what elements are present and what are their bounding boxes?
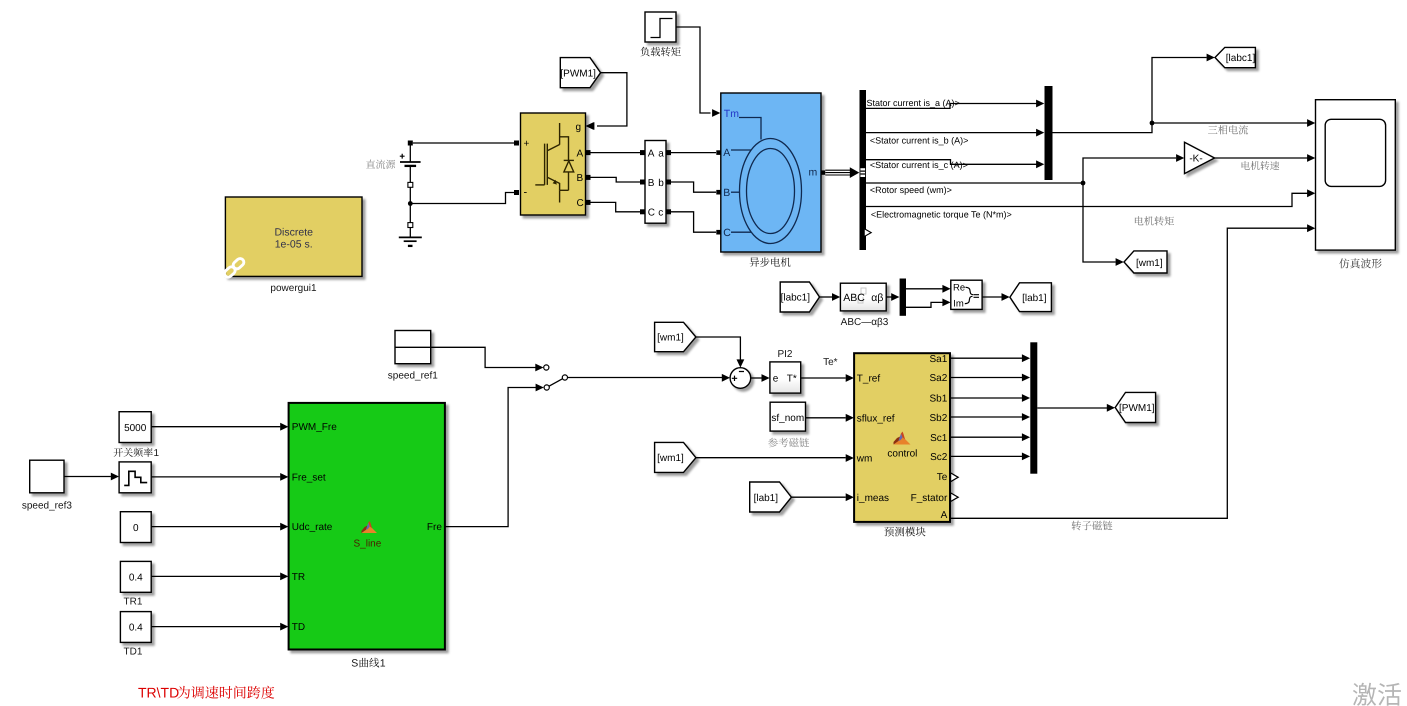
Goto block [lab1] [1010, 283, 1052, 312]
svg-text:F_stator: F_stator [911, 493, 948, 504]
wire: wm -> [wm1] goto [1083, 183, 1116, 262]
IGBT inverter block (universal bridge) [521, 113, 586, 215]
wire: electromagnetic torque Te -> scope [866, 193, 1308, 206]
watermark 激活 [1353, 683, 1401, 706]
From block [wm1] (top) [655, 322, 696, 351]
wire: inverter C -> measurement Cc [591, 202, 641, 211]
input port block speed_ref3 [30, 460, 64, 493]
svg-text:[wm1]: [wm1] [1136, 258, 1163, 269]
svg-text:PWM_Fre: PWM_Fre [292, 422, 337, 433]
svg-text:Tm: Tm [724, 108, 739, 120]
svg-text:Te: Te [937, 472, 948, 483]
svg-text:A: A [941, 510, 948, 521]
svg-text:<Stator current is_b (A)>: <Stator current is_b (A)> [870, 135, 969, 145]
wire: mux -> Re [906, 288, 943, 290]
speed_ref1 block [395, 331, 431, 364]
sum junction [730, 368, 751, 389]
Goto block [labc1] [1215, 47, 1255, 67]
svg-text:[labc1]: [labc1] [781, 293, 811, 304]
svg-text:Re: Re [953, 283, 965, 294]
wire: mux -> Im [906, 302, 943, 307]
svg-text:g: g [576, 122, 582, 133]
svg-text:0.4: 0.4 [129, 573, 143, 584]
svg-text:A: A [648, 148, 655, 159]
mux (alpha beta) [900, 279, 906, 316]
svg-text:PI2: PI2 [777, 349, 792, 360]
gain block -K- [1185, 142, 1215, 173]
svg-text:Sa1: Sa1 [930, 354, 948, 365]
manual switch [544, 365, 549, 370]
ground [399, 236, 422, 238]
wire: mux out -> [labc1] goto and scope [1053, 58, 1207, 133]
From block [lab1] [750, 482, 792, 512]
svg-text:[lab1]: [lab1] [754, 493, 779, 504]
wire [982, 296, 1001, 298]
wire: stator current is_b -> mux [866, 132, 1037, 134]
wire: gain -> scope [1215, 157, 1308, 159]
wire: [PWM1] -> inverter g port [597, 73, 627, 126]
label 开关频率1 [114, 448, 153, 457]
svg-text:Fre_set: Fre_set [292, 472, 326, 483]
svg-text:A: A [723, 147, 730, 159]
real-imag to complex block [951, 280, 982, 309]
From block [PWM1] [560, 58, 600, 88]
svg-text:+: + [524, 139, 530, 150]
svg-text:-K-: -K- [1189, 154, 1202, 165]
svg-text:TR1: TR1 [124, 596, 143, 607]
ABC to alpha-beta transform block [840, 283, 886, 311]
MATLAB logo [894, 432, 911, 445]
wire: battery + -> inverter + [413, 142, 514, 144]
wire: stair -> Fre_set [151, 476, 280, 478]
wire: control A output -> scope (rotor flux) [951, 228, 1308, 518]
signal label backgrounds [866, 97, 959, 108]
wire: mux -> [PWM1] goto [1037, 407, 1107, 409]
wire: load torque -> machine Tm [676, 27, 711, 113]
svg-text:5000: 5000 [124, 423, 147, 434]
svg-text:Te*: Te* [823, 357, 838, 368]
repeating sequence stair block [119, 462, 151, 493]
svg-text:T_ref: T_ref [857, 373, 881, 384]
wire [820, 296, 833, 298]
svg-text:<Electromagnetic torque Te (N*: <Electromagnetic torque Te (N*m)> [871, 209, 1012, 219]
constant 0 [120, 512, 151, 543]
svg-text:[PWM1]: [PWM1] [560, 68, 596, 79]
svg-text:i_meas: i_meas [857, 493, 889, 504]
svg-text:<Rotor speed (wm)>: <Rotor speed (wm)> [870, 185, 952, 195]
svg-text:ABC—αβ3: ABC—αβ3 [841, 317, 889, 328]
Goto block [PWM1] [1115, 392, 1155, 422]
svg-text:B: B [577, 173, 584, 184]
svg-text:control: control [887, 448, 917, 459]
svg-text:powergui1: powergui1 [270, 283, 317, 294]
svg-text:1e-05 s.: 1e-05 s. [275, 238, 313, 250]
wires: control outputs -> mux [951, 357, 1022, 359]
wire: sf_nom -> control sflux_ref [806, 417, 846, 419]
svg-text:speed_ref3: speed_ref3 [22, 501, 72, 512]
wire: speed_ref1 -> manual switch up [431, 347, 536, 367]
svg-text:Sc1: Sc1 [930, 433, 948, 444]
svg-text:<Stator current is_c (A)>: <Stator current is_c (A)> [870, 160, 968, 170]
sflux constant sf_nom [770, 402, 805, 431]
svg-text:Sa2: Sa2 [930, 373, 948, 384]
wire: speed_ref3 -> repeating sequence [64, 476, 111, 478]
svg-text:sflux_ref: sflux_ref [857, 414, 895, 425]
svg-text:[wm1]: [wm1] [657, 333, 684, 344]
From block [wm1] (lower) [655, 442, 696, 472]
svg-text:e: e [773, 373, 779, 384]
svg-text:Stator current is_a (A)>: Stator current is_a (A)> [867, 98, 960, 108]
wire: 5000 -> PWM_Fre [151, 426, 280, 428]
bus selector bar [860, 90, 867, 250]
svg-text:C: C [723, 227, 731, 239]
svg-text:Im: Im [953, 299, 964, 310]
wire: PI2 -> control T_ref [801, 377, 846, 379]
wire: inverter B -> measurement Bb [591, 177, 641, 182]
wire: 0 -> Udc_rate [151, 526, 280, 528]
svg-text:m: m [809, 167, 818, 179]
wire: stator current is_a -> mux [866, 104, 1037, 109]
svg-text:Fre: Fre [427, 522, 442, 533]
wire: a -> machine A [671, 152, 716, 154]
svg-text:b: b [658, 178, 664, 189]
asynchronous machine block 异步电机 [721, 93, 821, 252]
wire: rotor speed wm [866, 182, 1083, 184]
Goto block [wm1] [1124, 251, 1167, 273]
svg-text:wm: wm [856, 454, 873, 465]
svg-text:ABC: ABC [843, 292, 865, 304]
svg-text:Discrete: Discrete [274, 226, 313, 238]
broken chain icon [223, 257, 245, 279]
wire: wm -> gain [1083, 158, 1176, 183]
constant 0.4 (TR1) [120, 561, 151, 592]
constant 0.4 (TD1) [120, 612, 151, 643]
svg-text:S_line: S_line [353, 538, 381, 549]
MATLAB logo (S_line) [361, 521, 377, 533]
wire: S-curve Fre -> manual switch lower input [445, 388, 536, 527]
svg-text:Sc2: Sc2 [930, 452, 948, 463]
scope block 仿真波形 [1316, 100, 1396, 250]
wire [886, 296, 891, 298]
svg-text:A: A [577, 148, 584, 159]
wire: c -> machine C [671, 212, 716, 232]
svg-text:B: B [723, 187, 730, 199]
svg-text:C: C [577, 198, 584, 209]
mux (3 stator currents) [1045, 86, 1053, 180]
svg-text:c: c [658, 208, 663, 219]
svg-text:Udc_rate: Udc_rate [292, 522, 333, 533]
svg-text:[labc1]: [labc1] [1226, 53, 1256, 64]
svg-text:[lab1]: [lab1] [1022, 293, 1047, 304]
DC source 直流源: battery symbol [366, 160, 395, 169]
svg-text:T*: T* [787, 373, 797, 384]
wire: switch -> sum [568, 377, 723, 379]
svg-text:S: S [351, 658, 358, 670]
svg-text:1: 1 [154, 448, 160, 459]
wire: inverter A -> measurement Aa [591, 152, 641, 154]
From block [labc1] [780, 282, 819, 312]
wire: 0.4 -> TD [151, 626, 280, 628]
wire: stator current is_c -> mux [866, 160, 1037, 165]
svg-text:0: 0 [133, 523, 139, 534]
svg-text:speed_ref1: speed_ref1 [388, 371, 438, 382]
mux (gate signals) [1030, 342, 1037, 473]
svg-text:TD: TD [292, 622, 305, 633]
svg-text:[PWM1]: [PWM1] [1119, 403, 1155, 414]
svg-text:a: a [658, 148, 664, 159]
S-curve MATLAB function block S曲线1 [289, 403, 445, 650]
svg-text:Sb1: Sb1 [930, 394, 948, 405]
step source block 负载转矩 (load torque) [645, 12, 676, 42]
wire: sum -> PI2 [751, 377, 762, 379]
svg-text:[wm1]: [wm1] [657, 453, 684, 464]
powergui block [225, 197, 362, 276]
unconnected output chevrons Te / F_stator [951, 473, 959, 482]
svg-text:TR: TR [292, 572, 305, 583]
wire: 0.4 -> TR [151, 575, 280, 577]
svg-text:C: C [648, 208, 655, 219]
wire: [wm1] -> control wm [696, 457, 846, 459]
svg-text:TD1: TD1 [124, 647, 143, 658]
three-phase measurement block Aa Bb Cc [645, 141, 666, 224]
svg-text:1: 1 [380, 658, 386, 670]
wire: [wm1] -> sum top [696, 337, 741, 360]
wire: b -> machine B [671, 182, 716, 192]
PI controller block PI2 [770, 362, 801, 393]
svg-text:B: B [648, 178, 655, 189]
svg-text:TR\TD: TR\TD [138, 685, 179, 701]
wire: battery mid -> inverter - [410, 193, 514, 204]
machine m output bus -> bus selector [821, 170, 825, 174]
svg-text:-: - [524, 187, 528, 199]
svg-text:0.4: 0.4 [129, 623, 143, 634]
svg-text:sf_nom: sf_nom [771, 413, 804, 424]
constant 5000 [119, 412, 151, 443]
svg-text:αβ: αβ [871, 292, 883, 304]
svg-text:Sb2: Sb2 [930, 413, 948, 424]
wire: [lab1] -> control i_meas [791, 496, 845, 498]
predictive control MATLAB function block 预测模块 [854, 353, 950, 522]
